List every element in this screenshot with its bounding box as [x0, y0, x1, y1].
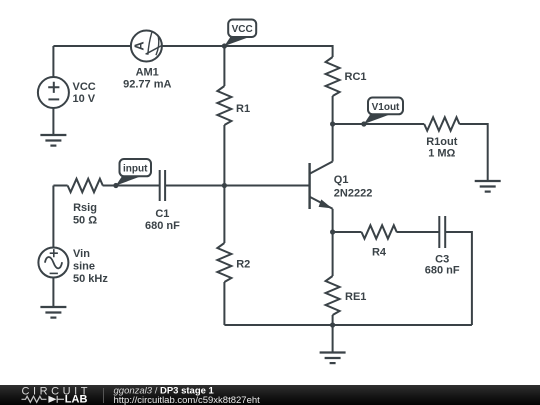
- wire node E to R4: [333, 231, 362, 233]
- wire AM1 to VCC node: [162, 45, 225, 47]
- junction node emitter E: [330, 229, 335, 234]
- svg-text:1 MΩ: 1 MΩ: [428, 148, 455, 160]
- svg-text:LAB: LAB: [65, 394, 88, 405]
- wire left rail down to Vin: [52, 186, 54, 248]
- junction node V1out at collector: [330, 121, 335, 126]
- net flag input: [116, 159, 151, 186]
- svg-text:680 nF: 680 nF: [425, 264, 460, 276]
- wire V1out node to R1out: [333, 123, 425, 125]
- wire bottom rail: [224, 324, 472, 326]
- wire Vin to ground: [52, 278, 54, 308]
- ammeter AM1: [131, 31, 162, 62]
- ground below VCC source: [40, 135, 66, 146]
- wire Rsig to C1: [103, 185, 160, 187]
- wire RC1 bottom lead to V1out node: [332, 96, 334, 124]
- footer divider: [103, 388, 105, 403]
- ground right (R1out): [475, 181, 501, 192]
- svg-text:50 kHz: 50 kHz: [73, 273, 108, 285]
- svg-text:680 nF: 680 nF: [145, 220, 180, 232]
- resistor RE1: [326, 276, 340, 315]
- svg-text:92.77 mA: 92.77 mA: [123, 78, 171, 90]
- junction node at VCC rail: [222, 43, 227, 48]
- svg-text:RE1: RE1: [345, 291, 366, 303]
- wire C1 to Q1 base: [165, 185, 310, 187]
- footer bar: [0, 385, 540, 405]
- wire Rsig left lead from left rail: [53, 185, 67, 187]
- capacitor C1: [160, 170, 165, 201]
- svg-text:input: input: [123, 164, 148, 175]
- svg-text:R4: R4: [372, 247, 387, 259]
- svg-text:VCC: VCC: [73, 81, 96, 93]
- wire top-left vertical from VCC source to top rail: [52, 46, 54, 77]
- resistor R1: [217, 86, 231, 125]
- svg-text:Rsig: Rsig: [73, 202, 97, 214]
- resistor R1out: [424, 117, 459, 130]
- junction node at input: [113, 183, 118, 188]
- svg-text:10 V: 10 V: [73, 93, 96, 105]
- transistor Q1: [310, 162, 333, 210]
- svg-text:V1out: V1out: [372, 102, 400, 113]
- svg-text:Vin: Vin: [73, 248, 90, 260]
- wire VCC source to ground: [52, 108, 54, 135]
- wire emitter of Q1 down to node E: [332, 209, 334, 232]
- svg-text:VCC: VCC: [232, 24, 253, 35]
- resistor Rsig: [68, 179, 103, 192]
- junction node C1/R1/R2 rail: [222, 183, 227, 188]
- svg-text:Q1: Q1: [334, 174, 349, 186]
- svg-text:R1: R1: [236, 103, 250, 115]
- wire VCC node to RC1 branch: [224, 46, 332, 57]
- svg-text:C1: C1: [155, 208, 169, 220]
- resistor RC1: [326, 57, 340, 96]
- svg-text:http://circuitlab.com/c59xk8t8: http://circuitlab.com/c59xk8t827eht: [114, 395, 261, 405]
- ground below Vin: [40, 307, 66, 318]
- junction node V1out flag anchor: [361, 121, 366, 126]
- svg-text:A: A: [132, 41, 146, 50]
- wire R4 to C3: [397, 231, 440, 233]
- voltage source Vin (sine): [38, 248, 68, 278]
- wire R1 leads: [223, 46, 225, 186]
- svg-text:R2: R2: [236, 258, 250, 270]
- footer logo squiggle resistor-diode: [22, 396, 65, 403]
- capacitor C3: [439, 216, 445, 248]
- svg-text:R1out: R1out: [426, 136, 458, 148]
- svg-text:AM1: AM1: [136, 66, 159, 78]
- voltage source VCC: [38, 77, 69, 108]
- svg-text:50 Ω: 50 Ω: [73, 214, 97, 226]
- wire C3 right branch down to bottom rail: [445, 232, 472, 325]
- wire collector of Q1 up to V1out node: [332, 124, 334, 162]
- svg-text:sine: sine: [73, 261, 95, 273]
- svg-text:RC1: RC1: [345, 71, 367, 83]
- wire R1out to right ground: [459, 124, 487, 181]
- wire RE1 leads: [332, 232, 334, 325]
- svg-text:2N2222: 2N2222: [334, 188, 373, 200]
- resistor R4: [362, 225, 397, 238]
- wire top rail left segment to AM1: [53, 45, 130, 47]
- wire R2 leads: [223, 186, 225, 326]
- wire bottom node to ground: [332, 325, 334, 353]
- junction node bottom rail: [330, 322, 335, 327]
- net flag V1out: [364, 98, 403, 125]
- resistor R2: [217, 243, 231, 282]
- ground bottom: [320, 353, 346, 364]
- net flag VCC: [224, 20, 256, 47]
